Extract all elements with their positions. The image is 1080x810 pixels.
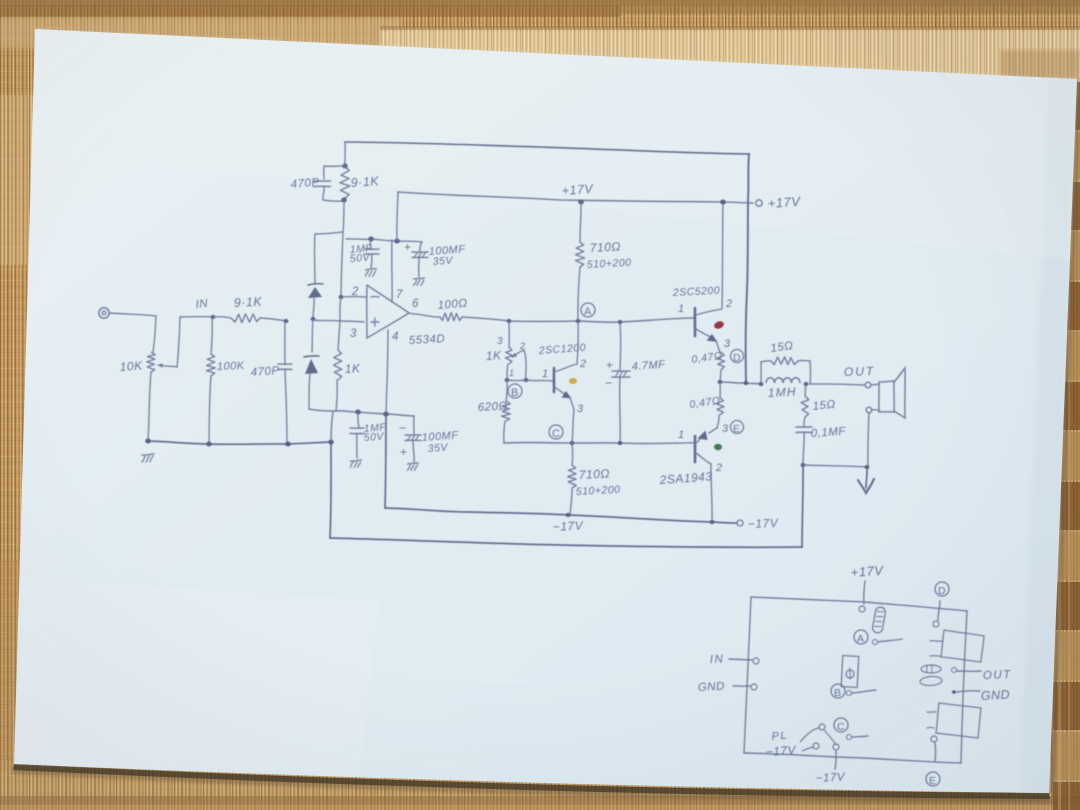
resistor R5 710ohm xyxy=(580,202,581,242)
+17V rail xyxy=(398,192,753,203)
-17V bottom stub layout xyxy=(833,744,839,750)
junction feedback top xyxy=(342,163,348,168)
wire pin7 supply xyxy=(391,240,393,302)
wire output top feedback run xyxy=(345,142,749,154)
ground rail input section xyxy=(147,441,331,444)
mat left sliver light band xyxy=(0,95,42,265)
speaker LS1 xyxy=(872,384,879,385)
mat top dark seam xyxy=(0,0,1080,6)
wire pin3 input xyxy=(313,320,364,322)
wire lower rail down to ground rail junction xyxy=(331,412,333,442)
small cap ellipses xyxy=(921,665,941,673)
junction pin2 node xyxy=(339,295,344,299)
junction zobel bottom xyxy=(801,463,806,467)
op-amp minus sign xyxy=(371,296,379,298)
capacitor C3 1MF 50V xyxy=(369,239,372,248)
output node wire xyxy=(720,382,761,384)
speaker return wire xyxy=(868,413,869,467)
GND stub layout right xyxy=(952,690,956,694)
outer bottom wire xyxy=(330,538,802,547)
transistor Q3 2SA1943 xyxy=(694,436,697,462)
Q2 collector xyxy=(696,203,723,315)
junction ground rail dots xyxy=(145,438,151,443)
resistor R2 100K xyxy=(211,318,212,354)
node A circle xyxy=(581,303,595,317)
potentiometer VR1 10K xyxy=(147,352,156,372)
wire lower terminal to speaker xyxy=(872,410,880,411)
wire input to 10K pot top xyxy=(110,313,156,352)
E stub layout xyxy=(931,736,937,742)
paper subtle shading xyxy=(35,29,1077,260)
junction +17V rail at 710 xyxy=(578,199,584,204)
lower rail wire to 1K and caps xyxy=(309,409,414,416)
mat bottom tone xyxy=(0,760,1080,810)
wire outer loop up to 0.1MF junction xyxy=(802,465,803,547)
layout board rectangle xyxy=(751,597,967,611)
resistor R9 0.47ohm xyxy=(719,382,721,398)
wire zobel to speaker return xyxy=(803,465,867,467)
mat top seam boundary xyxy=(380,26,1080,30)
small transistor pill top xyxy=(872,606,886,633)
node B circle xyxy=(508,384,522,398)
wire junction to D2 xyxy=(312,319,313,352)
Q1 yellow marker dot xyxy=(569,378,577,384)
paper drop shadow xyxy=(13,764,1050,799)
VR1 wiper arrow xyxy=(158,365,177,367)
resistor R11 15ohm xyxy=(761,361,771,362)
wire wiper down to base wire xyxy=(524,350,526,380)
capacitor C7 100MF 35V bottom xyxy=(413,416,415,434)
wire pin4 continues to -17V rail xyxy=(385,414,386,508)
mid transistor rect xyxy=(841,656,859,688)
junction feedback bottom xyxy=(341,197,347,202)
OUT stub layout xyxy=(952,668,957,673)
Q2 red marker dot xyxy=(713,320,725,330)
diode D1 xyxy=(308,284,323,285)
resistor R8 0.47ohm xyxy=(716,341,720,352)
transistor Q1 2SC1200 xyxy=(553,368,556,392)
Q3 emitter arrow xyxy=(709,428,717,433)
VR2 wiper arrow xyxy=(512,350,524,357)
-17V terminal xyxy=(737,520,743,526)
resistor R10 710ohm xyxy=(571,443,574,465)
wire wiper to IN node xyxy=(177,317,180,367)
wire B node to Q1 base xyxy=(507,380,553,381)
node D circle xyxy=(731,350,744,363)
resistor R12 15ohm zobel xyxy=(805,384,806,396)
+17V stub layout xyxy=(864,581,865,604)
junction IN node xyxy=(211,315,216,319)
wire C to Q3 base xyxy=(677,442,695,444)
mat top frayed light band right xyxy=(380,28,1080,98)
+17V terminal xyxy=(756,200,762,206)
resistor R3 9.1K feedback xyxy=(340,167,350,198)
op-amp U1 triangle xyxy=(367,285,409,338)
ground symbol input xyxy=(142,454,154,455)
junction R1 right node xyxy=(284,319,289,323)
resistor R6 100ohm xyxy=(409,313,440,317)
main wire opamp out to Q2 base xyxy=(462,317,695,322)
OUT terminal xyxy=(865,382,871,388)
wire D1 to pin3 wire xyxy=(313,298,314,319)
wire pin2 xyxy=(341,296,366,298)
mat right sliver blocks xyxy=(1053,82,1080,130)
potentiometer VR2 1K xyxy=(505,347,512,364)
PL wires xyxy=(800,728,820,742)
wire pin4 down xyxy=(386,330,388,414)
power transistor square bottom right xyxy=(936,703,981,738)
node E terminal layout xyxy=(926,772,940,786)
power transistor square top right xyxy=(941,630,984,662)
mat bottom seam xyxy=(0,796,1080,805)
C node wire xyxy=(504,442,677,445)
Q3 collector xyxy=(696,453,712,522)
wire VR1 bottom to ground rail xyxy=(148,372,151,441)
resistor R1 9.1K xyxy=(213,317,231,318)
op-amp plus sign xyxy=(371,321,379,323)
node C circle xyxy=(549,425,563,439)
wire pin2 node down to R4 1K xyxy=(338,297,341,350)
paper right edge inner shade xyxy=(1020,77,1077,793)
inductor L1 1MH xyxy=(766,378,800,383)
wire to OUT terminal xyxy=(810,384,864,385)
wire feedback node to diode column xyxy=(314,232,343,284)
input terminal J1 xyxy=(99,308,109,318)
capacitor C8 0.1MF xyxy=(804,417,805,426)
node B terminal layout xyxy=(831,684,845,698)
capacitor C4 100MF 35V xyxy=(420,242,422,251)
resistor R4 1K xyxy=(334,350,342,380)
cap rail top xyxy=(346,239,422,242)
capacitor C1 470P xyxy=(284,322,286,364)
wire feedback down to pin2 node xyxy=(341,200,344,297)
wire wiper node to IN junction xyxy=(180,316,213,318)
-17V rail xyxy=(385,508,737,523)
junction diode pin3 xyxy=(311,317,316,321)
wire rail down to cap rail xyxy=(397,192,398,241)
Q2 emitter arrow xyxy=(696,329,714,339)
junction cap rail xyxy=(368,236,374,241)
wire feedback vertical right down to output node xyxy=(746,154,749,382)
mat top lighter straw band left xyxy=(0,18,400,48)
15ohm/1MH parallel loop xyxy=(760,362,762,384)
node A terminal layout xyxy=(854,630,868,644)
capacitor C6 1MF 50V bottom xyxy=(358,412,359,427)
wire main to VR2 xyxy=(508,321,510,347)
capacitor C2 470P feedback xyxy=(324,166,345,179)
ground arrow down xyxy=(866,467,867,488)
resistor R7 620ohm xyxy=(506,381,507,401)
node D terminal layout xyxy=(935,582,949,596)
Q3 green marker dot xyxy=(714,444,722,450)
junction lower rail dots xyxy=(355,409,361,414)
wire ground rail to outer loop xyxy=(330,442,331,538)
speaker terminal lower xyxy=(866,407,872,413)
junction B node xyxy=(505,378,510,382)
wire D2 down to lower rail xyxy=(309,374,310,409)
capacitor C5 4.7MF xyxy=(619,322,622,370)
diode D2 xyxy=(304,356,319,357)
node C terminal layout xyxy=(834,718,848,732)
junction main wire dots xyxy=(507,319,512,323)
wire top node down to R3 xyxy=(344,142,346,166)
